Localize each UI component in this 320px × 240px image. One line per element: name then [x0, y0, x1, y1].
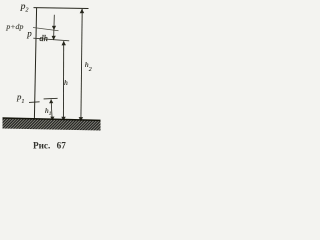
svg-text:h: h [64, 78, 68, 87]
arrow h bottom (down onto ground) [61, 117, 65, 121]
wire dh dimension line [53, 15, 56, 40]
svg-text:Рис.: Рис. [33, 141, 50, 151]
wire column vertical line [34, 8, 36, 119]
arrow h2 bottom (down onto ground) [79, 117, 84, 121]
svg-text:p: p [26, 28, 32, 38]
wire level line p+dp [33, 28, 59, 31]
wire level line p [33, 38, 69, 41]
ground hatched band [3, 118, 101, 131]
arrow dh lower (down onto p line) [52, 36, 56, 40]
wire level tick p1 [29, 101, 40, 104]
wire h1 dimension line [51, 99, 52, 120]
arrow h1 bottom (down onto ground) [50, 117, 54, 121]
svg-text:dh: dh [39, 34, 47, 43]
svg-text:p+dp: p+dp [5, 22, 23, 31]
arrow h2 top (up onto p2 line) [80, 9, 85, 13]
wire h dimension line [62, 41, 64, 120]
arrow h top (up onto p line) [62, 41, 66, 46]
arrow h1 top (up onto bar) [49, 99, 53, 103]
svg-text:67: 67 [57, 141, 67, 151]
wire top level line p2 [34, 7, 89, 10]
wire h1 top bar [44, 97, 58, 100]
arrow dh upper (down onto p+dp line) [52, 26, 56, 30]
ground top edge [3, 118, 101, 120]
wire h2 dimension line [81, 9, 82, 121]
